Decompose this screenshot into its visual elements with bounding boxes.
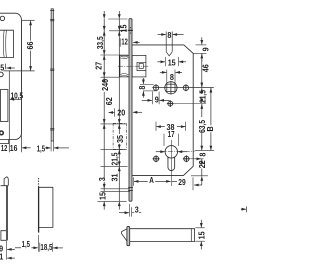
svg-text:33,5: 33,5 <box>95 36 105 49</box>
svg-text:16: 16 <box>10 143 18 153</box>
follower (square spindle hub) <box>165 82 177 94</box>
ext line from cylinder screw <box>174 103 206 105</box>
extension ticks <box>109 30 128 32</box>
svg-text:66: 66 <box>25 41 35 49</box>
strip screw slot marks <box>50 10 54 12</box>
dimension 20 <box>114 108 116 117</box>
dimension 15 (latch face) <box>164 57 166 66</box>
svg-text:8: 8 <box>170 72 174 82</box>
lock case in plan <box>130 229 195 242</box>
svg-text:B: B <box>205 126 215 131</box>
dimension 5 <box>5 64 7 70</box>
dimension 12 (latch) <box>119 38 121 47</box>
svg-text:27: 27 <box>94 62 104 70</box>
screw hole lower-right <box>184 156 189 161</box>
dimension 9 (chamfer) <box>201 37 203 44</box>
svg-text:20: 20 <box>117 108 125 118</box>
svg-text:12: 12 <box>1 143 8 153</box>
svg-text:3: 3 <box>135 205 139 215</box>
strike side view lip hook <box>1 177 9 186</box>
cylinder fixing screw hole <box>168 101 173 106</box>
svg-text:8: 8 <box>167 30 171 40</box>
faceplate in plan <box>127 226 130 245</box>
svg-text:21,5: 21,5 <box>110 152 120 165</box>
dimension 3 (faceplate thickness) <box>128 204 130 217</box>
extension below <box>6 241 8 260</box>
svg-text:62: 62 <box>104 97 114 105</box>
latch bolt in opening <box>3 31 6 58</box>
strike side view plate <box>5 186 7 241</box>
horizontal centerline through follower and screws <box>152 87 214 89</box>
fold top edge / ext line of 66 <box>3 70 34 72</box>
dimension 22 <box>201 159 203 161</box>
fold line <box>8 71 10 152</box>
svg-text:15: 15 <box>197 231 207 239</box>
strike plate bottom tab <box>0 140 9 144</box>
faceplate screw slot top <box>128 29 133 31</box>
dimension 15 (case thickness) <box>195 227 205 229</box>
svg-text:35: 35 <box>115 135 125 143</box>
dimension 38 <box>155 122 157 131</box>
screw hole upper-right <box>183 85 188 90</box>
dimension 22 bottom arrow <box>201 176 203 185</box>
svg-text:31: 31 <box>110 173 120 181</box>
dimension 1,5 (box) <box>37 235 39 252</box>
dimension 17 <box>163 134 165 146</box>
latch bolt head <box>120 55 129 77</box>
faceplate side strip <box>51 9 53 141</box>
latch centerline <box>118 65 148 67</box>
screw hole top <box>0 16 4 20</box>
svg-text:12: 12 <box>121 37 128 47</box>
svg-text:15: 15 <box>119 24 129 32</box>
lock case outline <box>132 45 193 176</box>
plate right edge extension <box>20 20 22 152</box>
strike side view bottom tab <box>1 231 6 241</box>
cylinder centerlines <box>160 151 195 153</box>
latch bolt body <box>132 55 146 77</box>
svg-text:1,5: 1,5 <box>22 239 31 249</box>
strike plate outline <box>0 13 21 139</box>
faceplate front view (vertical band) <box>129 19 132 202</box>
euro profile cylinder hole <box>165 146 177 158</box>
chain arrows <box>118 25 120 30</box>
dimension 66 <box>22 19 35 21</box>
screw hole bottom <box>0 131 3 135</box>
svg-text:8: 8 <box>137 85 147 89</box>
svg-text:8: 8 <box>197 152 207 156</box>
right edge extension <box>192 177 194 190</box>
dimension 18,5 <box>52 243 54 252</box>
svg-text:17: 17 <box>168 129 175 139</box>
deadbolt opening <box>1 90 8 122</box>
ext: case bottom <box>191 175 208 177</box>
svg-text:18,5: 18,5 <box>40 242 52 252</box>
dimension 1,5 (strip) <box>50 141 52 151</box>
dimension 8 (follower square height, left) <box>140 83 154 85</box>
ext: chamfer bottom <box>193 52 206 54</box>
svg-text:A: A <box>149 175 154 185</box>
svg-text:15: 15 <box>98 192 108 200</box>
screw hole upper-left <box>153 85 158 90</box>
screw hole lower-left <box>154 156 159 161</box>
svg-text:15: 15 <box>168 57 176 67</box>
svg-text:9: 9 <box>155 94 159 104</box>
svg-text:22: 22 <box>197 160 207 168</box>
svg-text:1,5: 1,5 <box>37 143 46 153</box>
svg-text:29: 29 <box>178 177 186 187</box>
svg-text:240: 240 <box>100 79 110 91</box>
strike box plate edge <box>38 178 40 187</box>
dimension 8 (follower square width) <box>166 70 168 85</box>
dimension A <box>133 177 135 186</box>
screw hole middle <box>0 72 3 77</box>
29 outside arrow leader <box>194 184 202 186</box>
svg-text:46: 46 <box>201 64 211 72</box>
top extension line <box>108 18 127 20</box>
dim chain line (right) <box>118 11 120 19</box>
latch opening <box>0 30 13 57</box>
ext line lower screws <box>190 158 203 160</box>
escutcheon outline (dash-dot) <box>112 123 114 149</box>
latch bolt bevel in plan <box>122 229 128 242</box>
dimension 9 (below follower) <box>151 92 153 105</box>
svg-text:1: 1 <box>0 251 4 261</box>
dimension 63,5 <box>201 104 203 117</box>
svg-text:3: 3 <box>97 177 107 181</box>
dim line 240 (left) <box>103 11 105 19</box>
strike box body <box>39 187 53 227</box>
svg-text:9: 9 <box>200 47 210 51</box>
clipped dimension at right edge <box>241 208 246 210</box>
ext: case top <box>196 44 207 46</box>
faceplate screw slot bottom <box>128 187 133 189</box>
svg-text:21,5: 21,5 <box>197 90 207 103</box>
dimension 46 <box>201 53 203 87</box>
dimension B <box>210 88 212 126</box>
latch cross-section above case <box>165 32 167 52</box>
ext: cylinder center <box>195 150 215 152</box>
